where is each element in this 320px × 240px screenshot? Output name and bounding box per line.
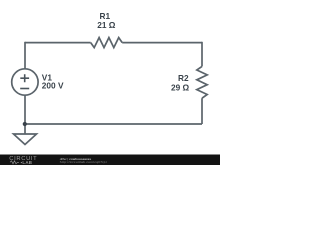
svg-text:29 Ω: 29 Ω [171, 82, 190, 92]
wire: right vertical upper segment (corner to R2 top) [201, 42, 203, 67]
junction node dot [23, 122, 27, 126]
svg-text:200 V: 200 V [42, 80, 64, 90]
resistor R1 zigzag [91, 38, 123, 48]
svg-text:21 Ω: 21 Ω [97, 20, 116, 30]
wire: top-right horizontal segment (R1 right lead to top-right corner) [122, 42, 202, 44]
wire: left vertical upper segment (node A down to V1 top) [24, 42, 26, 70]
wire: bottom horizontal segment (bottom-right corner to node B) [25, 123, 202, 125]
svg-text:R2: R2 [178, 73, 189, 83]
CircuitLab logo waveform and LAB [10, 161, 19, 164]
wire: top-left horizontal segment (node A to R1 left lead) [25, 42, 91, 44]
voltage source V1 circle [12, 69, 38, 95]
V1 minus sign [20, 88, 29, 90]
resistor R2 zigzag [197, 66, 207, 98]
watermark bar background [0, 155, 220, 166]
svg-text:▪LAB: ▪LAB [21, 160, 33, 165]
wire: right vertical lower segment (R2 bottom to bottom-right corner) [201, 98, 203, 124]
V1 plus sign [20, 74, 29, 82]
wire: left vertical lower segment (V1 bottom to ground stub) [24, 95, 26, 134]
ground symbol [14, 134, 37, 145]
svg-text:http://circuitlab.com/cqll7rpr: http://circuitlab.com/cqll7rpr [60, 160, 107, 164]
